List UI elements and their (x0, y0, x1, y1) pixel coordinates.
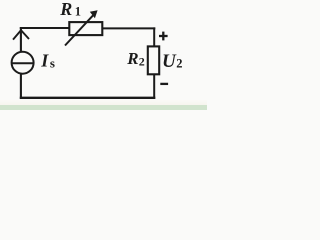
cream band (0, 100, 207, 105)
wire: left vertical lower (20, 74, 22, 99)
label Is (40, 51, 55, 71)
resistor R1 adjustment arrow (diagonal with head) (65, 10, 98, 45)
svg-text:U: U (162, 51, 177, 72)
wire: right vertical upper (153, 27, 155, 46)
svg-text:I: I (40, 51, 49, 71)
wire: bottom segment (20, 97, 156, 99)
label U2 (162, 51, 183, 72)
polarity minus (160, 83, 168, 85)
label R1 (59, 0, 81, 19)
current source Is: circle with horizontal bar (12, 52, 34, 74)
svg-text:s: s (50, 56, 55, 71)
wire: top-right segment (102, 27, 155, 29)
wire: left vertical upper (20, 27, 22, 52)
green band (0, 105, 207, 110)
svg-text:2: 2 (176, 57, 182, 71)
svg-text:1: 1 (75, 5, 81, 19)
resistor R1 (variable, box) (69, 22, 102, 35)
svg-text:R: R (126, 49, 138, 68)
current source direction arrow (chevron on left wire) (13, 30, 29, 39)
label R2 (126, 49, 145, 69)
svg-text:R: R (59, 0, 72, 19)
svg-text:2: 2 (139, 54, 145, 68)
resistor R2 (box) (148, 46, 159, 74)
wire: right vertical lower (153, 74, 155, 99)
polarity plus (159, 32, 168, 41)
wire: top-left segment (20, 27, 70, 29)
